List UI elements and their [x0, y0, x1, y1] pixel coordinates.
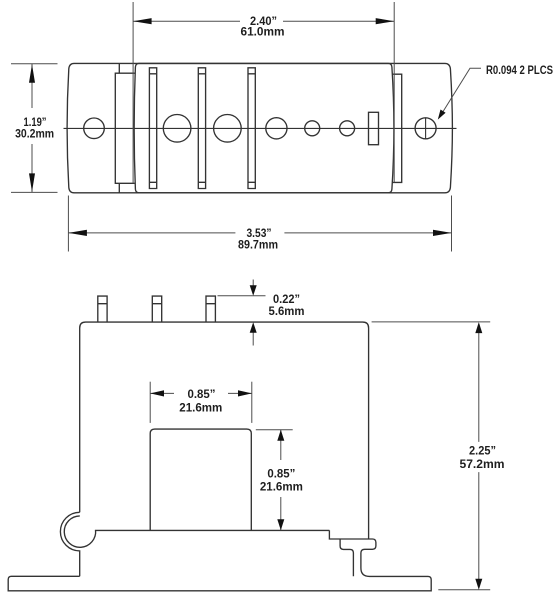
arrow 0.85h left [150, 390, 164, 396]
extension line 3.53 right [451, 196, 453, 252]
arrow 0.22 up [250, 322, 257, 333]
slot 2 [198, 68, 205, 189]
extension line 2.25 bottom [438, 589, 490, 591]
hook outer arc [60, 512, 79, 576]
arrow 0.85v down [277, 519, 284, 530]
pole hole 3 [266, 118, 287, 139]
dimension line 3.53 [68, 232, 451, 234]
dimension line 1.19 [31, 64, 33, 193]
dimension line 2.25 [478, 331, 480, 581]
arrow 3.53 right [433, 230, 452, 236]
svg-text:0.85”: 0.85” [267, 467, 295, 481]
mounting hole left [84, 118, 105, 139]
pole hole 1 [163, 115, 191, 143]
arrow 0.85v up [277, 430, 284, 441]
arrow 1.19 down [29, 173, 35, 192]
pin 3 [206, 296, 215, 322]
mounting hole right [415, 118, 436, 139]
extension line 0.85v top [256, 429, 293, 431]
main body [134, 63, 394, 192]
arrow 3.53 left [68, 230, 87, 236]
arrow 2.25 down [475, 579, 482, 590]
pole hole 5 [340, 121, 355, 136]
leader R0.094 [440, 68, 481, 116]
arrow 2.40 right [376, 18, 395, 24]
extension line 2.40 left [132, 2, 134, 183]
dimension line 0.85v [280, 430, 282, 531]
housing box outline [80, 322, 369, 539]
extension line 1.19 top [11, 63, 58, 65]
slot 3 [248, 68, 255, 189]
hook inner arc [64, 516, 95, 547]
extension line box top right (0.22 / 2.25) [372, 321, 491, 323]
extension line 1.19 bottom [11, 191, 58, 193]
pin 1 [98, 296, 107, 322]
arrow 2.25 up [475, 322, 482, 333]
svg-text:30.2mm: 30.2mm [15, 126, 54, 140]
svg-text:89.7mm: 89.7mm [238, 238, 278, 252]
arrow 2.40 left [133, 18, 152, 24]
svg-text:5.6mm: 5.6mm [269, 304, 305, 318]
T cap left piece [340, 539, 353, 576]
outer lozenge body [67, 63, 452, 192]
step and T-rail right chain [8, 530, 431, 590]
leader arrowhead [438, 110, 446, 120]
bar magnet [369, 112, 379, 144]
slot 1 [149, 68, 156, 189]
pole hole 2 [214, 115, 242, 143]
extension line 0.85h right [251, 382, 253, 423]
extension line 3.53 left [67, 196, 69, 252]
arrow 0.22 down [250, 285, 257, 296]
arrow tail 0.22 upper [252, 280, 254, 288]
svg-text:R0.094 2 PLCS: R0.094 2 PLCS [486, 63, 553, 77]
pin 2 [152, 296, 161, 322]
dimension line 2.40 [133, 20, 394, 22]
svg-text:21.6mm: 21.6mm [179, 400, 222, 414]
extension line 0.22 top [218, 295, 266, 297]
notch [150, 429, 251, 530]
pole hole 4 [305, 121, 320, 136]
extension line 2.40 right [393, 2, 395, 182]
centerline [64, 127, 457, 129]
arrow 1.19 up [29, 64, 35, 83]
arrow 0.85h right [238, 390, 252, 396]
svg-text:2.25”: 2.25” [469, 444, 496, 458]
svg-text:0.85”: 0.85” [188, 387, 216, 401]
svg-text:61.0mm: 61.0mm [241, 25, 285, 39]
arrow tail 0.22 lower [252, 331, 254, 346]
left mounting ear [115, 63, 134, 192]
extension line 0.85h left [149, 382, 151, 423]
dimension line 0.85h [150, 392, 252, 394]
svg-text:57.2mm: 57.2mm [460, 457, 505, 471]
box bottom edge [95, 529, 330, 531]
right mounting ear [392, 74, 402, 182]
hole right vertical tick [425, 118, 427, 139]
svg-text:21.6mm: 21.6mm [260, 480, 303, 494]
